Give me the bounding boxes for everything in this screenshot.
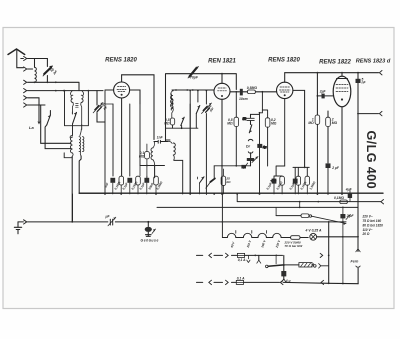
series capacitor C20 on ground bus <box>108 220 115 224</box>
decoupling capacitor C14 <box>293 179 298 184</box>
fuse F2 <box>236 280 243 284</box>
resistor R4 0.2M <box>265 118 270 127</box>
wire socket3 row <box>28 82 80 90</box>
wire V3 cathode down <box>284 99 286 166</box>
chassis capacitor C21 <box>147 221 149 223</box>
bus junction dots <box>104 193 106 195</box>
svg-text:0,1 A: 0,1 A <box>237 276 245 280</box>
switch S3 <box>213 166 215 178</box>
oscillator shield box <box>166 74 237 142</box>
oscillator lower rail <box>166 127 198 129</box>
svg-text:REN 1821: REN 1821 <box>208 59 236 65</box>
svg-text:G/LG 400: G/LG 400 <box>364 131 378 190</box>
selector contacts <box>314 265 317 268</box>
svg-text:2µF: 2µF <box>319 89 327 93</box>
switch S7 <box>196 106 200 114</box>
capacitor C16 <box>247 118 254 120</box>
svg-text:MΩ: MΩ <box>308 121 314 125</box>
svg-text:Gehäuse: Gehäuse <box>141 239 160 243</box>
node dot <box>55 81 57 83</box>
trimmer C4 70pF <box>190 68 197 77</box>
wire V2 anode up <box>221 74 223 84</box>
wire socket5 to La arrow <box>28 98 40 121</box>
wire V1 grid left <box>105 89 114 91</box>
wire V2 cathode down <box>221 99 223 194</box>
dial lamp <box>310 233 317 240</box>
svg-text:2 μF: 2 μF <box>346 214 355 218</box>
T2 tap hook <box>64 153 72 158</box>
lead2 right segment <box>280 280 283 284</box>
svg-text:0,5MΩ: 0,5MΩ <box>247 86 258 90</box>
transformer primary winding <box>221 194 223 238</box>
wire V4 anode up <box>341 73 343 77</box>
wire V1 anode to top rail <box>122 75 154 140</box>
wire T2 left leg to ground bus <box>71 156 73 222</box>
wire x190 vertical <box>189 104 191 194</box>
coil L1 <box>35 67 37 82</box>
switch S4 <box>200 177 205 183</box>
voltage selector lever <box>309 215 311 217</box>
tube V4 RENS1822 <box>333 76 351 107</box>
capacitor C19 <box>241 165 246 169</box>
resistor R15 <box>301 214 309 218</box>
decoupling capacitor C11 <box>127 178 132 183</box>
coil L4 <box>171 99 173 109</box>
right vertical x259.7 <box>259 113 261 194</box>
transformer T1 primary <box>71 91 73 96</box>
cathode group rail <box>274 166 285 179</box>
right bus <box>357 73 359 252</box>
oscillator coil L2 <box>153 142 155 148</box>
resistor R2 <box>221 176 226 185</box>
transformer T2 primary <box>70 135 72 137</box>
wire V4 cathode down <box>341 107 343 195</box>
resistor R17 0.1M <box>340 200 348 204</box>
resistor R7 2M <box>326 117 331 126</box>
wire right of T1 <box>104 91 106 194</box>
wire V3 anode to top rail <box>285 73 358 83</box>
svg-text:La: La <box>29 125 34 130</box>
resistor R10 <box>154 176 159 185</box>
fuse F1 <box>237 253 244 257</box>
svg-text:2 µF: 2 µF <box>331 166 340 170</box>
svg-text:Dr: Dr <box>246 145 251 149</box>
capacitor C8 2uF <box>326 163 331 168</box>
switch S5 <box>181 117 184 125</box>
svg-text:RENS 1820: RENS 1820 <box>268 58 300 64</box>
svg-text:4 μ: 4 μ <box>285 279 291 283</box>
transformer T1 secondary <box>82 91 84 96</box>
svg-text:RENS 1820: RENS 1820 <box>105 58 137 64</box>
ground lower-left <box>14 222 21 234</box>
capacitor C18 <box>257 144 262 148</box>
wire vertical x262 <box>260 92 263 113</box>
wire socket6 down <box>28 104 46 106</box>
tube V3 RENS1820 <box>277 82 293 98</box>
resistor R3 DRAHT <box>247 90 255 94</box>
mains lead 2 <box>197 281 237 283</box>
output terminal top <box>358 72 379 74</box>
H2 rail <box>237 194 381 202</box>
band wire row <box>65 91 89 126</box>
switch S1 <box>47 115 51 125</box>
capacitor C23 2uF <box>340 214 345 218</box>
svg-text:MΩ: MΩ <box>332 121 338 125</box>
capacitor C22 4uF <box>348 193 352 198</box>
junction row under L2 <box>140 165 165 167</box>
capacitor C9 5nF <box>356 79 361 83</box>
resistor R12 <box>296 176 301 185</box>
oscillator coil L3 <box>171 91 173 96</box>
wire socket1 to coil L1 and trimmer branch <box>28 59 48 68</box>
wire T2 right leg to main bus start <box>79 156 110 193</box>
transformer T2 secondary <box>80 129 81 135</box>
svg-text:kΩ: kΩ <box>227 180 232 184</box>
svg-text:4μF: 4μF <box>345 187 353 191</box>
screen group rail <box>293 167 309 178</box>
svg-text:70pF: 70pF <box>190 76 199 80</box>
antenna <box>8 49 25 55</box>
svg-text:RENS 1822: RENS 1822 <box>319 60 351 66</box>
wire V4 grid leg <box>316 73 318 115</box>
svg-text:20 Ω: 20 Ω <box>362 232 370 236</box>
wire socket4 long grid bus <box>28 90 104 92</box>
resistor R1 0.1M <box>145 152 150 159</box>
svg-text:4 V 0,25 A: 4 V 0,25 A <box>305 229 322 233</box>
svg-text:80 Ω bei 1820: 80 Ω bei 1820 <box>363 224 384 228</box>
resistor R8 <box>119 176 124 185</box>
voltage selector switch <box>258 255 260 260</box>
wire verticals under V1 <box>113 104 140 176</box>
wire socket6 to T2 tap1 <box>41 105 71 143</box>
switch S2 <box>73 112 77 124</box>
svg-text:0,1 A: 0,1 A <box>238 258 246 262</box>
phone connector <box>271 179 274 183</box>
wire V1 plate right <box>130 90 140 104</box>
resistor R6 1M <box>315 115 320 124</box>
lead1 right junction <box>328 255 330 257</box>
svg-text:10cm: 10cm <box>239 97 248 101</box>
svg-text:MΩ: MΩ <box>271 121 277 125</box>
decoupling capacitor C10 <box>110 178 115 183</box>
H3 rail <box>157 206 358 208</box>
capacitor C7 2uF <box>317 95 321 97</box>
wire V1 cathode down <box>121 98 123 176</box>
antenna socket column <box>24 56 27 107</box>
resistor R5 0.5M <box>234 117 239 126</box>
wire lamp feed down <box>328 222 330 283</box>
resistor R14 <box>170 118 174 125</box>
wire drops in box <box>189 91 191 195</box>
value label 500pF b <box>206 103 216 113</box>
electrolytic C24 <box>283 255 285 270</box>
choke Dr contacts <box>248 139 253 140</box>
resistor R2 stub <box>222 169 224 194</box>
resistor R11 <box>280 176 285 185</box>
capacitor C15 1nF <box>154 140 168 143</box>
detector node wire <box>214 165 250 167</box>
detector branch vertical <box>251 113 260 115</box>
value label 500pF <box>99 102 109 112</box>
tube V1 RENS1820 <box>114 82 130 98</box>
decoupling capacitor C13 <box>272 179 277 184</box>
resistor R16 <box>291 236 300 240</box>
tube V2 REN1821 <box>214 83 230 99</box>
H4 rail <box>276 215 301 217</box>
resistor R9 <box>136 176 141 185</box>
main HT bus <box>79 192 383 194</box>
wire V2 grid row <box>172 89 214 91</box>
svg-text:75 Ω bei 160: 75 Ω bei 160 <box>363 219 382 223</box>
svg-text:MΩ: MΩ <box>164 121 170 125</box>
value label 50pF <box>49 66 58 76</box>
svg-text:70 Ω bei GW: 70 Ω bei GW <box>285 244 304 248</box>
svg-text:1nF: 1nF <box>157 135 164 139</box>
decoupling capacitor C12 <box>144 178 149 183</box>
svg-text:RENS 1823 d: RENS 1823 d <box>356 59 391 65</box>
svg-text:MΩ: MΩ <box>227 121 233 125</box>
svg-text:50: 50 <box>243 117 247 121</box>
T1 core <box>76 104 79 108</box>
svg-text:Fern: Fern <box>351 259 360 263</box>
tuning capacitor C2 <box>96 91 98 105</box>
svg-text:0,1MΩ: 0,1MΩ <box>334 196 344 200</box>
svg-text:1µ: 1µ <box>263 145 267 149</box>
switch S6 <box>249 125 252 133</box>
ground bus wire <box>28 221 347 223</box>
trimmer capacitor C1 50pF <box>46 59 48 83</box>
svg-text:MΩ: MΩ <box>139 155 145 159</box>
socket to ground bus <box>24 220 27 224</box>
Fern connector <box>357 236 359 238</box>
wire socket2 stub <box>28 68 33 70</box>
wire S1 to T2 tap2 <box>45 125 71 149</box>
resistor R13 <box>305 176 310 185</box>
output terminal 2 <box>358 113 379 115</box>
svg-text:220 V~: 220 V~ <box>362 215 373 219</box>
wire V3 screen right <box>293 90 305 167</box>
tuning capacitor C5 <box>203 106 209 112</box>
coupling capacitor C6 <box>230 91 240 93</box>
wire bus to HT vertical <box>72 194 74 222</box>
wirewound resistor R18 <box>299 263 312 267</box>
capacitor C17 <box>247 158 254 161</box>
IF transformer T3 secondary <box>168 141 173 143</box>
mains lead 1 <box>197 254 238 256</box>
